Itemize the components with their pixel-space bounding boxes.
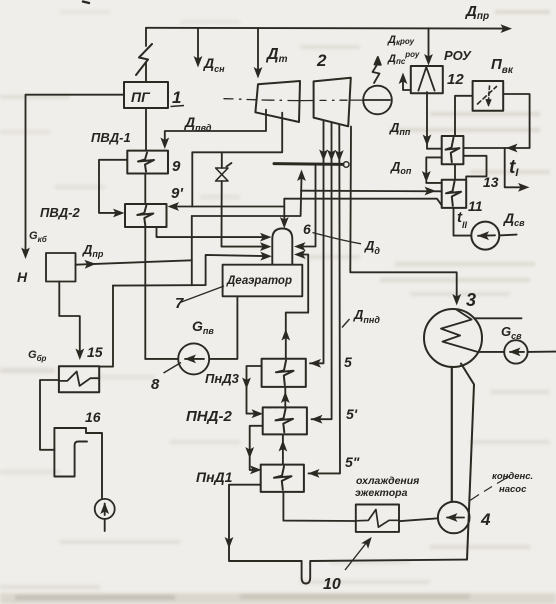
wire: LP extraction drop to PND-2 — [312, 123, 332, 419]
svg-text:9: 9 — [172, 158, 181, 175]
arrow: drain 2-1 down — [245, 447, 254, 459]
wire: Dpr blowdown steam line to riser — [76, 260, 192, 264]
wire: PVD-2 drain to deaerator row1 — [157, 227, 265, 237]
arrow: bottom drain down — [225, 537, 234, 549]
wire: H1 link to deaerator feed drop — [192, 206, 283, 208]
wire: Dsn tap — [197, 28, 199, 60]
wire: Dk-rou tap to ROU — [428, 28, 430, 58]
arrow: Dpvd into PVD-1 — [160, 138, 169, 150]
arrow: Dpr top right — [501, 24, 513, 33]
svg-text:РОУ: РОУ — [444, 48, 472, 63]
boiler ПГ U1 — [124, 82, 168, 108]
wire: expander bottom drain to cooler 15 — [59, 282, 80, 353]
arrow: Dpp down — [423, 135, 432, 147]
svg-text:Н: Н — [17, 269, 28, 285]
PVD-1 heater box (9) — [127, 151, 168, 174]
svg-text:1: 1 — [172, 88, 181, 107]
svg-text:5': 5' — [346, 406, 358, 422]
svg-text:10: 10 — [323, 576, 341, 593]
wire: extraction no.2 drop to PVD-2 — [171, 152, 192, 206]
arrow: PVD-1 drain into PVD-2 left — [113, 209, 125, 218]
wire: heater 13 drain to heater 11 — [463, 156, 486, 180]
condensate pump 4 — [438, 502, 470, 534]
svg-text:7: 7 — [175, 295, 184, 312]
PND-1 heater box (5'') — [261, 465, 304, 492]
wire: condenser right downcomer to bottom line — [461, 364, 474, 560]
wire: Dsv suction stub — [499, 234, 516, 237]
arrow: pump 4 internal — [446, 513, 458, 522]
wire: valve line to deaerator left arrow row2 — [222, 181, 265, 247]
wire: t2 return to Dsv pump — [454, 208, 472, 236]
wire: deaerator dome top feed — [283, 199, 285, 222]
arrow: dome right row2 left — [294, 250, 306, 259]
svg-text:эжектора: эжектора — [355, 487, 408, 499]
wire: Pvk inlet from heater 13 side — [455, 96, 473, 136]
generator G1 — [363, 86, 392, 115]
wire: Dt tap to turbine — [257, 28, 259, 71]
arrow: Dop down — [422, 171, 431, 183]
svg-text:12: 12 — [447, 71, 464, 88]
svg-text:ПнД3: ПнД3 — [205, 371, 240, 386]
stray pen mark top left — [83, 2, 89, 4]
wire: drain cooler return riser to deaerator row3 — [113, 255, 265, 286]
arrow: heater 3 feed down — [452, 294, 461, 306]
PVD-2 heater box — [125, 204, 167, 227]
arrow: turbine exhaust into header 3 — [335, 150, 344, 162]
arrow: PND2 to PND3 up — [281, 392, 290, 404]
svg-text:ПнД1: ПнД1 — [196, 469, 233, 485]
wire: ejector cooler to condensate pump 4 — [399, 518, 438, 521]
svg-text:5": 5" — [345, 454, 360, 470]
pointer line for label 10 — [345, 540, 369, 571]
drain pump bottom left — [95, 499, 115, 531]
svg-text:ПВД-1: ПВД-1 — [91, 130, 131, 145]
svg-text:8: 8 — [151, 376, 160, 393]
arrow: PND1 to PND2 up — [279, 440, 288, 452]
svg-text:ПГ: ПГ — [131, 89, 151, 105]
wire: deaerator to feed pump suction — [209, 296, 237, 359]
arrow: riser up into header — [297, 170, 306, 182]
ROU reducing unit box (12) — [411, 66, 443, 93]
wire: condensate from ejector cooler to PND-1 — [283, 492, 355, 521]
drain cooler box 15 — [59, 366, 99, 392]
wire: valve branch down — [221, 152, 223, 168]
turbine HP cylinder — [255, 81, 300, 122]
arrow: into PND-3 right — [310, 359, 322, 368]
arrow: Gkb down — [21, 248, 30, 260]
heater 11 lower network box — [442, 180, 467, 208]
ejector cooler box (10) — [356, 505, 399, 532]
wire: PND-3 drain cascade to PND-2 — [247, 366, 262, 414]
arrow: Dpr blowdown right — [84, 260, 96, 269]
wire: Gsv suction from right edge — [528, 351, 556, 353]
peak boiler Pvk box — [473, 81, 504, 111]
arrow: Dps up — [399, 73, 408, 85]
pointer dash for condensate pump label — [470, 477, 509, 501]
arrow: Dt down — [254, 67, 263, 79]
svg-text:ПНД-2: ПНД-2 — [186, 408, 232, 425]
wire: ROU outlet Dpp down to heater 13 — [427, 92, 442, 149]
wire: header to deaerator dome right row — [297, 165, 316, 247]
arrow: Pvk line into heater 13 left — [506, 144, 518, 153]
break symbol on boiler riser — [136, 44, 152, 75]
wire: Dpr riser H2 branch — [191, 216, 193, 285]
wire: riser down to cooler 15 top — [99, 286, 113, 367]
arrow: feed pump 8 internal — [185, 355, 197, 364]
arrow: PVD-2 drain into dome row1 — [260, 233, 272, 242]
pointer line for label 8 — [164, 363, 182, 374]
deaerator tank (7) — [223, 265, 303, 297]
valve V1 bowtie — [216, 163, 232, 181]
wire: PND-3 condensate riser to deaerator row right2 — [286, 255, 308, 358]
wire: water-seal U loop — [302, 560, 467, 584]
wire: LP extraction drop to PND-1 — [309, 125, 341, 473]
extraction header collector — [274, 162, 349, 168]
svg-text:2: 2 — [316, 51, 327, 70]
wire: PND-1 drain to condenser bottom line — [229, 485, 302, 561]
network heater 3 — [424, 309, 482, 367]
wire: Dop bracket into heater 11 — [426, 157, 441, 183]
svg-text:11: 11 — [468, 198, 483, 214]
arrow: drain 3-2 right — [252, 409, 264, 418]
wire: extraction no.2 manifold — [192, 113, 282, 153]
svg-text:насос: насос — [499, 484, 527, 495]
arrow: turbine exhaust into header 2 — [327, 150, 336, 162]
wire: PVD-1 drain bracket to PVD-2 — [99, 160, 127, 213]
wire: LP exhaust to heating extraction L1 — [284, 199, 441, 206]
wire: Pvk outlet to heater 13 right — [463, 94, 529, 148]
svg-text:3: 3 — [466, 290, 476, 310]
wire: HP exhaust no.1 extraction to PVD-1 — [165, 110, 266, 142]
pointer curve for label Dd — [313, 233, 362, 244]
PND-3 heater box (5) — [262, 359, 306, 387]
svg-text:охлаждения: охлаждения — [356, 475, 419, 487]
wire: t1 supply takeoff — [505, 148, 524, 187]
settling tank 16 — [54, 428, 102, 499]
svg-text:16: 16 — [85, 409, 101, 425]
svg-text:4: 4 — [480, 510, 491, 529]
underline of label 1 — [171, 106, 185, 107]
arrow: dome right row1 left — [294, 242, 306, 251]
wire: heater 3 network water inlet from Gsv pump — [479, 351, 505, 353]
wire: network water pipe heater 11 to heater 13 — [454, 164, 456, 180]
wire: H2 horizontal to header up-arrow — [192, 177, 302, 216]
wire: feedwater main riser deaerator->PVD->boiler — [144, 108, 147, 359]
arrow: pointer 10 — [361, 534, 375, 548]
PND-2 heater box (5') — [263, 407, 307, 434]
network return pump Dsv — [471, 222, 499, 250]
feed pump 8 Gpv — [178, 343, 209, 374]
arrow: t1 right — [518, 183, 530, 192]
arrow: dome top feed down — [280, 217, 289, 229]
wire: condensate riser PND1->PND2 — [282, 434, 284, 464]
arrow: cooler return into dome row3 — [260, 252, 272, 261]
arrow: valve line into dome row2 — [260, 242, 272, 251]
wire: LP last stage drop to network heater 3 — [350, 127, 456, 301]
heater 13 upper network box — [442, 136, 464, 164]
wire: condensate riser PND2->PND3 — [284, 387, 286, 408]
wire: main steam header Dpr top line — [146, 27, 508, 30]
blowdown expander H — [46, 253, 76, 282]
svg-text:15: 15 — [87, 344, 103, 360]
wire: feed pump discharge to main riser — [145, 358, 178, 360]
wire: PND-2 drain cascade to PND-1 — [250, 426, 263, 470]
svg-text:Деаэратор: Деаэратор — [226, 275, 292, 287]
dash-dot on PND-2 top edge — [266, 406, 287, 408]
svg-text:5: 5 — [344, 354, 352, 370]
arrow: PND-3 condensate up — [281, 329, 290, 341]
wire: heater 3 outlet top right — [474, 317, 521, 319]
wire: Dps-rou stub with up arrow — [403, 76, 411, 90]
wire: LP extraction drop to PND-3 — [310, 122, 324, 364]
arrow: turbine exhaust into header 1 — [319, 150, 328, 162]
wire: feed water from boiler left to Gkb drop — [26, 95, 125, 251]
arrow: drain pump internal up — [100, 503, 109, 515]
arrow: expander drain down — [75, 349, 84, 361]
shaft dash-dot axis — [224, 99, 365, 101]
arrow: Dsn down — [194, 56, 203, 68]
arrow: Dsv pump internal — [478, 231, 490, 240]
deaerator dome (6) — [272, 229, 292, 265]
arrow: drain 3-2 down — [242, 378, 251, 390]
wire: header riser branch to heater 11 — [301, 190, 442, 193]
svg-text:конденс.: конденс. — [492, 471, 533, 482]
wire: condenser hotwell down to pump 4 — [451, 367, 453, 502]
wire: boiler stack riser — [145, 28, 147, 82]
pointer tick for label Dpnd — [342, 319, 350, 328]
svg-text:13: 13 — [483, 174, 499, 190]
arrow: branch into heater 11 — [425, 187, 437, 196]
arrow: Gsv pump internal — [509, 348, 521, 357]
network water pump Gsv — [504, 340, 527, 363]
arrow: into PND-2 right — [311, 415, 323, 424]
wire: cooler 15 outlet to tank 16 — [40, 380, 59, 450]
svg-text:9': 9' — [171, 185, 183, 202]
arrow: extraction into PVD-2 right — [168, 202, 180, 211]
turbine LP cylinder (2) — [314, 78, 351, 127]
break symbol above generator — [373, 57, 381, 83]
arrow: Dk-rou down — [424, 54, 433, 66]
svg-text:6: 6 — [303, 221, 311, 237]
arrow: drain 2-1 right — [250, 466, 262, 475]
pointer line for label 7 — [180, 286, 224, 303]
svg-text:ПВД-2: ПВД-2 — [40, 205, 80, 220]
arrow: into PND-1 right — [308, 469, 320, 478]
